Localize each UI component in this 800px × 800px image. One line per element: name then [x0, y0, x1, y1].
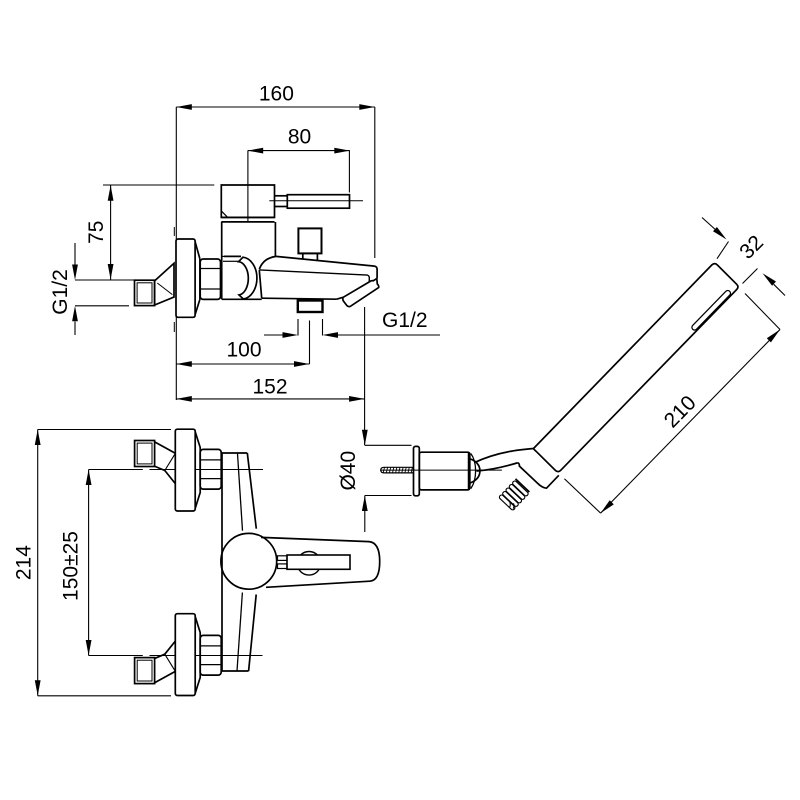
hose connector block [518, 463, 559, 488]
escutcheon front top [175, 429, 200, 511]
extension line nozzle end [364, 307, 366, 445]
diverter knob [298, 228, 321, 253]
holder cup rim cone [470, 454, 480, 489]
diameter 40 dimension [337, 430, 412, 532]
wall bracket plate [414, 446, 420, 495]
escutcheon front bottom [175, 614, 200, 696]
lever stem [278, 556, 288, 569]
escutcheon side [176, 239, 200, 317]
svg-text:100: 100 [226, 339, 261, 362]
shower hose port [298, 301, 323, 313]
cartridge housing [221, 185, 274, 217]
handle rod [287, 195, 349, 209]
stud centerline [380, 469, 502, 471]
hex nut front bottom [200, 635, 221, 675]
dimension 210 [564, 294, 780, 514]
dimension 100 [176, 339, 309, 367]
svg-text:Ø40: Ø40 [337, 451, 360, 491]
extension line left (wall plane) [175, 107, 177, 400]
lever front [261, 537, 380, 587]
wall union square front bottom [135, 658, 155, 684]
outlet nozzle [343, 279, 379, 307]
valve body side [222, 222, 276, 299]
holder cup [419, 452, 470, 490]
dimension 160 with arrows [176, 83, 374, 110]
cartridge circle front [221, 533, 277, 589]
hose nipple [516, 466, 538, 492]
hose crimp [499, 480, 529, 511]
spray slot [691, 289, 732, 331]
handle pin [275, 196, 288, 207]
dimension 150 plus-minus 25 [60, 470, 92, 656]
dimension 152 [176, 376, 364, 402]
port extension lines [298, 319, 323, 336]
lever slot [287, 555, 350, 569]
lever screw circle [297, 552, 321, 576]
svg-text:150±25: 150±25 [60, 531, 83, 601]
extension line 214 top [38, 429, 171, 431]
G1/2 right dimension [264, 309, 440, 338]
body tube front [222, 453, 256, 671]
extension line inlet top [89, 469, 263, 471]
svg-text:G1/2: G1/2 [49, 269, 72, 315]
diverter stem [303, 253, 318, 260]
eccentric cone front top [154, 442, 175, 484]
extension line 214 bottom [38, 695, 171, 697]
hex nut front top [200, 449, 221, 489]
spout inner line [259, 270, 369, 282]
dimension 32 [702, 218, 785, 296]
extension line 80 left [247, 151, 249, 222]
svg-text:152: 152 [252, 376, 287, 399]
body dome fillet [259, 256, 276, 269]
spout outline [259, 256, 377, 299]
body crescent [239, 257, 257, 299]
shower wand [533, 264, 737, 472]
extension line top of body [103, 184, 214, 186]
eccentric cone front bottom [154, 641, 175, 683]
svg-text:75: 75 [85, 221, 108, 244]
hex nut side [200, 259, 220, 299]
handle centerline [269, 200, 363, 202]
svg-text:160: 160 [259, 83, 294, 106]
G1/2 left dimension arrows [49, 243, 78, 335]
wand grip [474, 449, 533, 472]
cartridge band [221, 217, 274, 222]
port centerline [309, 321, 311, 365]
dimension 214 [13, 430, 41, 696]
extension line right (spout tip) [374, 107, 376, 258]
svg-text:80: 80 [288, 126, 311, 149]
extension line inlet bottom [89, 655, 263, 657]
dimension 80 with arrows [248, 126, 350, 154]
wall union square side [135, 280, 155, 305]
reference line square bottom [75, 305, 129, 307]
threaded stud [381, 467, 414, 473]
extension line 80 right [348, 151, 350, 193]
wall union square front top [135, 441, 155, 467]
reference line square top [75, 279, 135, 281]
svg-text:214: 214 [13, 545, 36, 580]
escutcheon centerline dashes [173, 227, 175, 332]
eccentric cone side [155, 263, 174, 305]
dimension 75 with arrows [85, 185, 113, 279]
svg-text:G1/2: G1/2 [382, 309, 428, 332]
